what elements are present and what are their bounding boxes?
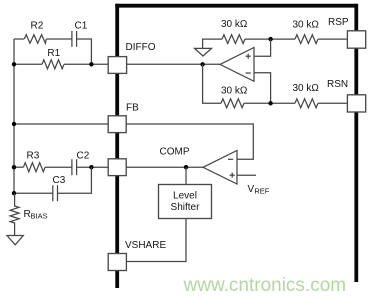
svg-text:30 kΩ: 30 kΩ	[293, 20, 320, 31]
wire: level shifter output to VSHARE pad	[126, 219, 186, 262]
svg-text:Shifter: Shifter	[171, 202, 201, 213]
wire: DIFFO node down to bottom 30k row	[203, 64, 221, 103]
svg-text:R3: R3	[27, 151, 40, 162]
svg-text:R2: R2	[31, 21, 44, 32]
ground symbol (top, inverting network)	[195, 48, 212, 56]
svg-text:RSN: RSN	[327, 79, 348, 90]
capacitor C2	[72, 159, 77, 175]
wire: C1 to right corner down to R1 row	[77, 39, 92, 64]
resistor 30k bottom-left	[221, 99, 244, 108]
U2 plus input mark	[230, 173, 235, 178]
wire: C3 up to COMP node	[58, 167, 92, 193]
level shifter block U3	[159, 185, 212, 219]
svg-text:30 kΩ: 30 kΩ	[221, 86, 248, 97]
resistor 30k top-left	[222, 35, 245, 44]
thick bus right vertical rail	[354, 4, 358, 282]
junction dot DIFFO node	[200, 62, 204, 66]
svg-text:C3: C3	[53, 175, 66, 186]
wire: FB to comparator inverting input	[126, 124, 253, 159]
label RBIAS	[24, 209, 48, 221]
pin pad RSP	[347, 31, 365, 48]
U1 plus input mark	[246, 54, 251, 59]
svg-text:C2: C2	[77, 151, 90, 162]
resistor RBIAS (vertical)	[10, 193, 19, 235]
svg-text:www.cntronics.com: www.cntronics.com	[183, 275, 347, 296]
wire: U2 plus input to VREF	[237, 174, 256, 176]
junction dot left vertical / C3 row	[12, 191, 16, 195]
wire: top ground to 30k row	[203, 39, 222, 48]
resistor R3	[23, 163, 45, 172]
junction dot C2/C3/COMP node	[89, 165, 93, 169]
svg-text:C1: C1	[75, 21, 88, 32]
svg-text:VSHARE: VSHARE	[125, 240, 166, 251]
svg-text:DIFFO: DIFFO	[126, 42, 156, 53]
thick bus left vertical rail	[115, 4, 119, 288]
wire: 30k bottom-right to RSN pad	[318, 102, 347, 104]
svg-text:COMP: COMP	[160, 147, 190, 158]
junction dot left vertical / FB row	[12, 122, 16, 126]
wire: DIFFO row to op-amp U1 output	[127, 63, 220, 65]
op-amp U1 (unity-gain differential)	[220, 48, 254, 82]
wire: top node down to op-amp + input	[254, 39, 271, 56]
wire: R2 to C1	[46, 38, 72, 40]
resistor 30k top-right	[295, 35, 318, 44]
pin pad VSHARE	[108, 254, 126, 271]
wire: COMP pad to comparator output	[126, 166, 203, 168]
svg-text:30 kΩ: 30 kΩ	[293, 83, 320, 94]
wire: COMP node down to level shifter	[185, 167, 187, 184]
svg-text:BIAS: BIAS	[31, 212, 48, 221]
label Level Shifter	[171, 191, 201, 213]
junction dot bottom node	[268, 101, 272, 105]
wire: R3 to C2	[45, 166, 72, 168]
junction dot R1 row / C1 branch	[89, 62, 93, 66]
wire: C2 to COMP pad	[77, 166, 108, 168]
svg-text:FB: FB	[126, 103, 139, 114]
junction dot left vertical / R3 row	[12, 165, 16, 169]
svg-text:RSP: RSP	[328, 17, 349, 28]
svg-text:REF: REF	[254, 186, 269, 195]
resistor 30k bottom-right	[295, 99, 318, 108]
pin pad RSN	[347, 95, 365, 112]
resistor R1	[42, 60, 64, 69]
wire: U1 minus input to bottom node	[254, 73, 271, 104]
svg-text:Level: Level	[173, 191, 197, 202]
op-amp U2 (error amplifier)	[203, 151, 237, 185]
wire: 30k bottom-left to bottom node	[244, 102, 295, 104]
wire: 30k top-right to RSP pad	[318, 38, 347, 40]
wire: R2/C1 top branch left riser and row	[14, 38, 24, 40]
pin pad DIFFO	[108, 57, 126, 74]
pin pad COMP	[108, 159, 126, 176]
capacitor C1	[72, 31, 77, 47]
ground symbol (RBIAS)	[7, 236, 23, 245]
wire: C3 row from left net	[14, 192, 53, 194]
thick supply bus top horizontal	[115, 4, 356, 8]
resistor R2	[24, 35, 46, 44]
U2 minus input mark	[228, 158, 233, 160]
label VREF	[248, 184, 270, 196]
junction dot COMP / level shifter	[184, 165, 188, 169]
wire: 30k top-left to node	[245, 38, 295, 40]
pin pad FB	[108, 116, 126, 133]
svg-text:R1: R1	[47, 48, 60, 59]
wire: left vertical net	[13, 39, 15, 193]
capacitor C3	[53, 185, 58, 201]
wire: R1 row left	[14, 63, 42, 65]
wire: R1 to DIFFO pad	[64, 63, 108, 65]
wire: FB row from left net through pad	[14, 123, 108, 125]
wire: R3 row from left net	[14, 166, 23, 168]
U1 minus input mark	[246, 72, 251, 74]
junction dot left vertical / R1 row	[12, 62, 16, 66]
svg-text:30 kΩ: 30 kΩ	[221, 19, 248, 30]
junction dot top node	[268, 37, 272, 41]
